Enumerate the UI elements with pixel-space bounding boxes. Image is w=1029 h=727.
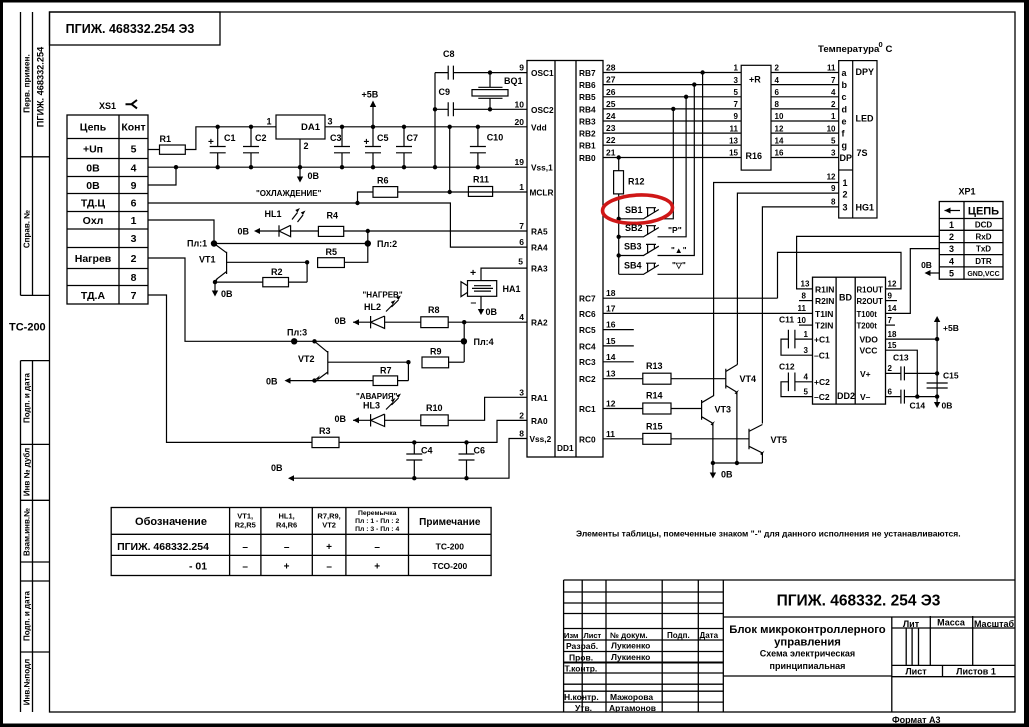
svg-text:14: 14 [888, 304, 897, 313]
svg-text:VT5: VT5 [771, 435, 788, 445]
svg-text:C13: C13 [893, 353, 909, 363]
svg-text:№ докум.: № докум. [610, 631, 648, 640]
svg-text:5: 5 [131, 144, 137, 156]
svg-text:Мажорова: Мажорова [610, 692, 653, 702]
svg-text:R4,R6: R4,R6 [276, 521, 297, 530]
svg-text:Цепь: Цепь [80, 122, 107, 134]
svg-text:–: – [326, 562, 332, 573]
svg-text:Формат А3: Формат А3 [892, 715, 941, 725]
svg-text:Н.контр.: Н.контр. [564, 692, 599, 702]
svg-text:14: 14 [775, 136, 784, 145]
svg-text:c: c [842, 92, 847, 102]
svg-text:R1: R1 [160, 134, 172, 144]
svg-text:4: 4 [804, 373, 809, 382]
svg-text:SB3: SB3 [624, 242, 642, 252]
svg-text:3: 3 [519, 387, 524, 397]
svg-text:0: 0 [879, 40, 883, 49]
svg-text:14: 14 [606, 352, 616, 362]
svg-text:2: 2 [831, 100, 836, 109]
svg-text:13: 13 [606, 369, 616, 379]
svg-text:5: 5 [518, 257, 523, 267]
svg-text:3: 3 [804, 346, 809, 355]
svg-text:+5В: +5В [362, 90, 379, 100]
svg-text:Vdd: Vdd [531, 123, 547, 133]
svg-text:4: 4 [775, 76, 780, 85]
svg-text:Утв.: Утв. [575, 703, 592, 713]
svg-text:RC4: RC4 [579, 341, 596, 351]
svg-text:4: 4 [131, 163, 137, 175]
svg-text:Лист: Лист [584, 631, 602, 640]
svg-text:12: 12 [606, 399, 616, 409]
svg-text:Лукиенко: Лукиенко [611, 641, 650, 651]
svg-text:R4: R4 [327, 211, 339, 221]
svg-text:g: g [842, 141, 848, 151]
svg-text:6: 6 [888, 387, 893, 396]
svg-text:R12: R12 [628, 177, 645, 187]
svg-text:5: 5 [831, 136, 836, 145]
svg-text:R7,R9,: R7,R9, [317, 512, 340, 521]
svg-text:VT4: VT4 [740, 374, 757, 384]
svg-text:Пл : 1 - Пл : 2: Пл : 1 - Пл : 2 [355, 518, 399, 525]
svg-text:13: 13 [801, 280, 810, 289]
svg-text:Охл: Охл [83, 215, 104, 227]
svg-text:RC2: RC2 [579, 374, 596, 384]
svg-text:RA0: RA0 [531, 416, 548, 426]
svg-text:V+: V+ [860, 369, 871, 379]
svg-text:+C2: +C2 [814, 377, 830, 387]
svg-text:1: 1 [843, 178, 848, 188]
svg-text:XP1: XP1 [958, 187, 975, 197]
svg-text:принципиальная: принципиальная [770, 661, 846, 671]
svg-text:18: 18 [606, 288, 616, 298]
svg-text:управления: управления [774, 637, 841, 649]
svg-text:Подп.: Подп. [667, 631, 690, 640]
svg-text:Vss,2: Vss,2 [530, 434, 552, 444]
svg-text:16: 16 [606, 320, 616, 330]
svg-text:SB1: SB1 [625, 205, 643, 215]
svg-text:Разраб.: Разраб. [566, 641, 598, 651]
svg-text:24: 24 [606, 111, 616, 121]
svg-text:0В: 0В [271, 463, 283, 473]
svg-text:Пл:2: Пл:2 [377, 239, 397, 249]
svg-text:DD2: DD2 [837, 391, 855, 401]
svg-text:RB4: RB4 [579, 104, 596, 114]
svg-text:Взам.инв.№: Взам.инв.№ [23, 508, 32, 556]
svg-text:ТС-200: ТС-200 [436, 542, 465, 552]
svg-text:C14: C14 [910, 401, 926, 411]
svg-text:Изм: Изм [564, 631, 579, 640]
svg-text:RC5: RC5 [579, 325, 596, 335]
svg-text:RB1: RB1 [579, 141, 596, 151]
svg-text:15: 15 [729, 149, 738, 158]
svg-text:SB4: SB4 [624, 261, 642, 271]
svg-text:7S: 7S [857, 148, 868, 158]
svg-text:Схема электрическая: Схема электрическая [760, 649, 855, 659]
svg-text:C11: C11 [779, 315, 794, 325]
svg-text:R7: R7 [380, 366, 392, 376]
svg-text:RA1: RA1 [531, 393, 548, 403]
svg-text:5: 5 [804, 387, 809, 396]
svg-text:Артамонов: Артамонов [609, 703, 656, 713]
svg-text:HL1,: HL1, [278, 512, 294, 521]
svg-text:ПГИЖ. 468332.254: ПГИЖ. 468332.254 [117, 541, 209, 553]
svg-text:C5: C5 [377, 133, 389, 143]
svg-text:+Uп: +Uп [83, 144, 103, 156]
svg-text:Дата: Дата [700, 631, 719, 640]
svg-text:DTR: DTR [975, 257, 992, 266]
svg-text:3: 3 [949, 244, 954, 254]
svg-text:–: – [374, 542, 380, 553]
svg-text:Обозначение: Обозначение [135, 516, 207, 528]
svg-text:+5В: +5В [943, 323, 959, 333]
svg-text:7: 7 [131, 290, 137, 302]
svg-text:5: 5 [949, 268, 954, 278]
svg-text:VT3: VT3 [715, 405, 732, 415]
svg-text:"ОХЛАЖДЕНИЕ": "ОХЛАЖДЕНИЕ" [256, 189, 322, 198]
svg-text:HG1: HG1 [856, 202, 875, 212]
svg-text:3: 3 [843, 202, 848, 212]
svg-text:–: – [242, 562, 248, 573]
svg-text:Масса: Масса [937, 618, 966, 628]
svg-text:RB3: RB3 [579, 116, 596, 126]
svg-text:T200t: T200t [857, 322, 878, 331]
svg-text:12: 12 [775, 124, 784, 133]
svg-text:+: + [208, 137, 214, 148]
svg-text:8: 8 [775, 100, 780, 109]
svg-text:С: С [886, 44, 893, 55]
svg-text:6: 6 [519, 237, 524, 247]
svg-text:RA4: RA4 [531, 243, 548, 253]
svg-text:RC6: RC6 [579, 309, 596, 319]
svg-text:0В: 0В [221, 289, 233, 299]
svg-text:3: 3 [831, 149, 836, 158]
svg-text:0В: 0В [238, 227, 250, 237]
svg-text:2: 2 [304, 141, 309, 151]
svg-text:1: 1 [804, 330, 809, 339]
svg-text:Лист: Лист [905, 667, 927, 677]
svg-text:5: 5 [734, 88, 739, 97]
svg-text:Инв.№подл: Инв.№подл [23, 659, 32, 705]
svg-text:15: 15 [888, 341, 897, 350]
svg-text:Vss,1: Vss,1 [531, 163, 553, 173]
svg-text:C12: C12 [779, 362, 795, 372]
svg-text:"▽": "▽" [672, 261, 686, 270]
svg-text:C10: C10 [487, 133, 504, 143]
svg-text:12: 12 [888, 280, 897, 289]
svg-text:RC3: RC3 [579, 357, 596, 367]
svg-text:9: 9 [888, 291, 893, 300]
svg-text:Пл : 3 - Пл : 4: Пл : 3 - Пл : 4 [355, 526, 399, 533]
svg-text:15: 15 [606, 336, 616, 346]
svg-text:R11: R11 [473, 175, 489, 185]
svg-text:HL1: HL1 [265, 209, 282, 219]
svg-text:–C1: –C1 [814, 351, 830, 361]
svg-text:7: 7 [734, 100, 739, 109]
svg-text:18: 18 [888, 330, 897, 339]
svg-text:ТД.А: ТД.А [81, 290, 106, 302]
svg-text:0В: 0В [308, 171, 320, 181]
svg-text:VDO: VDO [860, 335, 879, 345]
svg-text:C6: C6 [474, 446, 486, 456]
svg-text:11: 11 [730, 124, 739, 133]
svg-text:13: 13 [729, 136, 738, 145]
svg-text:RB5: RB5 [579, 92, 596, 102]
svg-text:C3: C3 [330, 133, 342, 143]
svg-text:6: 6 [775, 88, 780, 97]
svg-text:4: 4 [949, 256, 954, 266]
svg-text:VT1: VT1 [199, 255, 216, 265]
svg-text:Перемычка: Перемычка [358, 510, 397, 517]
svg-text:2: 2 [888, 364, 893, 373]
svg-text:Пл:4: Пл:4 [474, 337, 494, 347]
svg-text:VT1,: VT1, [237, 512, 253, 521]
svg-text:R13: R13 [646, 361, 663, 371]
svg-text:0В: 0В [86, 180, 100, 192]
svg-text:MCLR: MCLR [530, 188, 554, 198]
svg-text:19: 19 [515, 157, 525, 167]
svg-text:9: 9 [131, 180, 137, 192]
svg-text:GND,VCC: GND,VCC [967, 271, 999, 278]
svg-text:RB2: RB2 [579, 129, 596, 139]
svg-text:DPY: DPY [856, 67, 875, 77]
svg-text:20: 20 [515, 117, 525, 127]
svg-text:Справ. №: Справ. № [23, 210, 32, 248]
svg-text:HL2: HL2 [364, 302, 381, 312]
svg-text:R2,R5: R2,R5 [235, 521, 256, 530]
svg-text:R9: R9 [430, 347, 442, 357]
svg-text:RxD: RxD [975, 233, 991, 242]
svg-text:OSC1: OSC1 [531, 68, 554, 78]
svg-text:25: 25 [606, 99, 616, 109]
svg-text:HL3: HL3 [363, 401, 380, 411]
svg-text:26: 26 [606, 87, 616, 97]
svg-text:R2: R2 [271, 267, 283, 277]
svg-text:7: 7 [519, 221, 524, 231]
svg-text:+: + [470, 267, 476, 279]
svg-text:2: 2 [949, 232, 954, 242]
svg-text:0В: 0В [486, 307, 498, 317]
svg-text:ТСО-200: ТСО-200 [432, 561, 467, 571]
svg-text:R2IN: R2IN [815, 296, 834, 306]
svg-text:8: 8 [831, 197, 836, 206]
svg-text:–C2: –C2 [814, 392, 830, 402]
svg-text:OSC2: OSC2 [531, 105, 554, 115]
svg-text:VCC: VCC [860, 346, 878, 356]
svg-text:1: 1 [131, 215, 137, 227]
svg-text:Примечание: Примечание [419, 517, 481, 528]
svg-text:9: 9 [734, 112, 739, 121]
svg-text:Пл:1: Пл:1 [187, 239, 207, 249]
svg-text:C7: C7 [407, 133, 419, 143]
svg-text:11: 11 [798, 304, 807, 313]
svg-text:21: 21 [606, 148, 616, 158]
svg-text:Т.контр.: Т.контр. [565, 664, 598, 674]
svg-text:T100t: T100t [857, 310, 878, 319]
svg-text:R8: R8 [428, 305, 440, 315]
svg-text:R1OUT: R1OUT [857, 285, 884, 294]
svg-text:T2IN: T2IN [815, 321, 833, 331]
svg-text:0В: 0В [86, 163, 100, 175]
svg-text:ПГИЖ. 468332.254 Э3: ПГИЖ. 468332.254 Э3 [66, 22, 195, 36]
svg-text:DP: DP [840, 153, 853, 163]
svg-text:"▲": "▲" [671, 246, 687, 255]
svg-text:BD: BD [839, 292, 852, 302]
svg-text:V–: V– [860, 392, 871, 402]
svg-text:3: 3 [328, 117, 333, 127]
svg-text:2: 2 [775, 64, 780, 73]
svg-text:Температура: Температура [818, 44, 880, 55]
svg-text:ТД.Ц: ТД.Ц [81, 198, 106, 210]
svg-text:VT2: VT2 [298, 354, 315, 364]
svg-text:1: 1 [831, 112, 836, 121]
svg-text:8: 8 [519, 429, 524, 439]
svg-text:+: + [326, 542, 332, 553]
svg-text:+: + [284, 562, 290, 573]
svg-text:Инв № дубл: Инв № дубл [23, 448, 32, 496]
svg-text:Лукиенко: Лукиенко [611, 652, 650, 662]
svg-text:RB7: RB7 [579, 68, 596, 78]
svg-text:RC1: RC1 [579, 404, 596, 414]
svg-text:11: 11 [827, 64, 836, 73]
svg-text:RC0: RC0 [579, 434, 596, 444]
svg-text:–: – [471, 297, 477, 309]
svg-text:0В: 0В [335, 316, 347, 326]
svg-text:"НАГРЕВ": "НАГРЕВ" [363, 291, 403, 300]
svg-text:R16: R16 [746, 151, 763, 161]
svg-text:HA1: HA1 [503, 284, 521, 294]
svg-text:Пл:3: Пл:3 [287, 328, 307, 338]
svg-text:6: 6 [131, 198, 137, 210]
svg-text:ПГИЖ. 468332.254: ПГИЖ. 468332.254 [36, 46, 46, 127]
svg-text:C2: C2 [255, 133, 267, 143]
svg-text:Лит: Лит [903, 619, 920, 629]
svg-text:Перв. примен.: Перв. примен. [22, 54, 32, 113]
svg-text:Блок микроконтроллерного: Блок микроконтроллерного [729, 624, 886, 636]
svg-text:RA2: RA2 [531, 318, 548, 328]
svg-text:ЦЕПЬ: ЦЕПЬ [968, 206, 999, 218]
svg-text:R2OUT: R2OUT [857, 297, 884, 306]
svg-text:+C1: +C1 [814, 335, 830, 345]
svg-text:1: 1 [734, 64, 739, 73]
svg-text:10: 10 [797, 316, 806, 325]
svg-text:LED: LED [856, 114, 875, 124]
svg-text:8: 8 [802, 291, 807, 300]
svg-text:1: 1 [949, 220, 954, 230]
svg-text:SB2: SB2 [625, 223, 643, 233]
svg-text:16: 16 [775, 149, 784, 158]
svg-text:RB0: RB0 [579, 153, 596, 163]
svg-text:e: e [842, 116, 847, 126]
svg-text:b: b [842, 80, 848, 90]
svg-text:DD1: DD1 [557, 443, 574, 453]
svg-text:22: 22 [606, 135, 616, 145]
svg-text:+: + [374, 562, 380, 573]
svg-text:0В: 0В [335, 414, 347, 424]
svg-text:28: 28 [606, 63, 616, 73]
svg-text:R15: R15 [646, 422, 663, 432]
svg-text:10: 10 [515, 99, 525, 109]
svg-text:4: 4 [831, 88, 836, 97]
svg-text:Пров.: Пров. [569, 653, 593, 663]
svg-text:1: 1 [519, 182, 524, 192]
svg-text:Нагрев: Нагрев [75, 253, 112, 265]
svg-text:0В: 0В [942, 401, 953, 411]
svg-text:R5: R5 [326, 247, 338, 257]
svg-text:ПГИЖ. 468332. 254 Э3: ПГИЖ. 468332. 254 Э3 [777, 593, 941, 610]
svg-text:d: d [842, 104, 848, 114]
svg-text:7: 7 [888, 316, 893, 325]
svg-text:Элементы таблицы, помеченные з: Элементы таблицы, помеченные знаком "-" … [576, 529, 961, 539]
svg-text:Масштаб: Масштаб [974, 619, 1015, 629]
svg-text:ТС-200: ТС-200 [9, 322, 46, 334]
svg-text:+R: +R [749, 75, 761, 85]
svg-text:- 01: - 01 [189, 561, 207, 573]
svg-text:12: 12 [827, 173, 836, 182]
svg-text:TxD: TxD [976, 245, 991, 254]
svg-text:C4: C4 [421, 446, 433, 456]
svg-text:0В: 0В [921, 260, 932, 270]
svg-text:Подп. и дата: Подп. и дата [23, 590, 32, 640]
svg-text:2: 2 [519, 410, 524, 420]
svg-text:R14: R14 [646, 391, 663, 401]
svg-text:0В: 0В [721, 470, 733, 480]
svg-text:27: 27 [606, 75, 616, 85]
svg-text:BQ1: BQ1 [504, 76, 523, 86]
svg-text:3: 3 [734, 76, 739, 85]
svg-text:10: 10 [827, 124, 836, 133]
svg-text:"Р": "Р" [668, 225, 682, 235]
svg-text:DA1: DA1 [301, 122, 321, 133]
svg-text:9: 9 [519, 63, 524, 73]
svg-text:Листов 1: Листов 1 [956, 667, 996, 677]
svg-text:R1IN: R1IN [815, 284, 834, 294]
svg-text:1: 1 [267, 117, 272, 127]
svg-text:C1: C1 [224, 133, 236, 143]
svg-text:DCD: DCD [975, 221, 993, 230]
svg-text:Конт: Конт [121, 122, 145, 134]
svg-text:C15: C15 [943, 370, 959, 380]
svg-text:17: 17 [606, 303, 616, 313]
svg-text:11: 11 [606, 429, 615, 439]
svg-text:9: 9 [831, 184, 836, 193]
svg-text:4: 4 [519, 312, 524, 322]
svg-text:VT2: VT2 [322, 521, 336, 530]
svg-text:R10: R10 [426, 403, 443, 413]
svg-text:10: 10 [775, 112, 784, 121]
svg-text:RC7: RC7 [579, 294, 596, 304]
svg-text:2: 2 [131, 253, 137, 265]
svg-text:23: 23 [606, 123, 616, 133]
svg-text:T1IN: T1IN [815, 309, 833, 319]
svg-text:8: 8 [131, 272, 137, 284]
svg-text:+: + [364, 137, 370, 148]
svg-text:R3: R3 [319, 426, 331, 436]
svg-text:–: – [284, 542, 290, 553]
svg-text:Подп. и дата: Подп. и дата [23, 372, 32, 422]
svg-text:R6: R6 [377, 176, 389, 186]
svg-text:RA3: RA3 [531, 264, 548, 274]
svg-text:C9: C9 [439, 87, 451, 97]
svg-text:–: – [242, 542, 248, 553]
svg-text:RA5: RA5 [531, 227, 548, 237]
svg-text:RB6: RB6 [579, 80, 596, 90]
svg-text:0В: 0В [266, 377, 278, 387]
svg-text:XS1: XS1 [99, 101, 116, 111]
svg-text:3: 3 [131, 233, 137, 245]
svg-text:7: 7 [831, 76, 836, 85]
svg-text:2: 2 [843, 189, 848, 199]
svg-text:C8: C8 [443, 49, 455, 59]
